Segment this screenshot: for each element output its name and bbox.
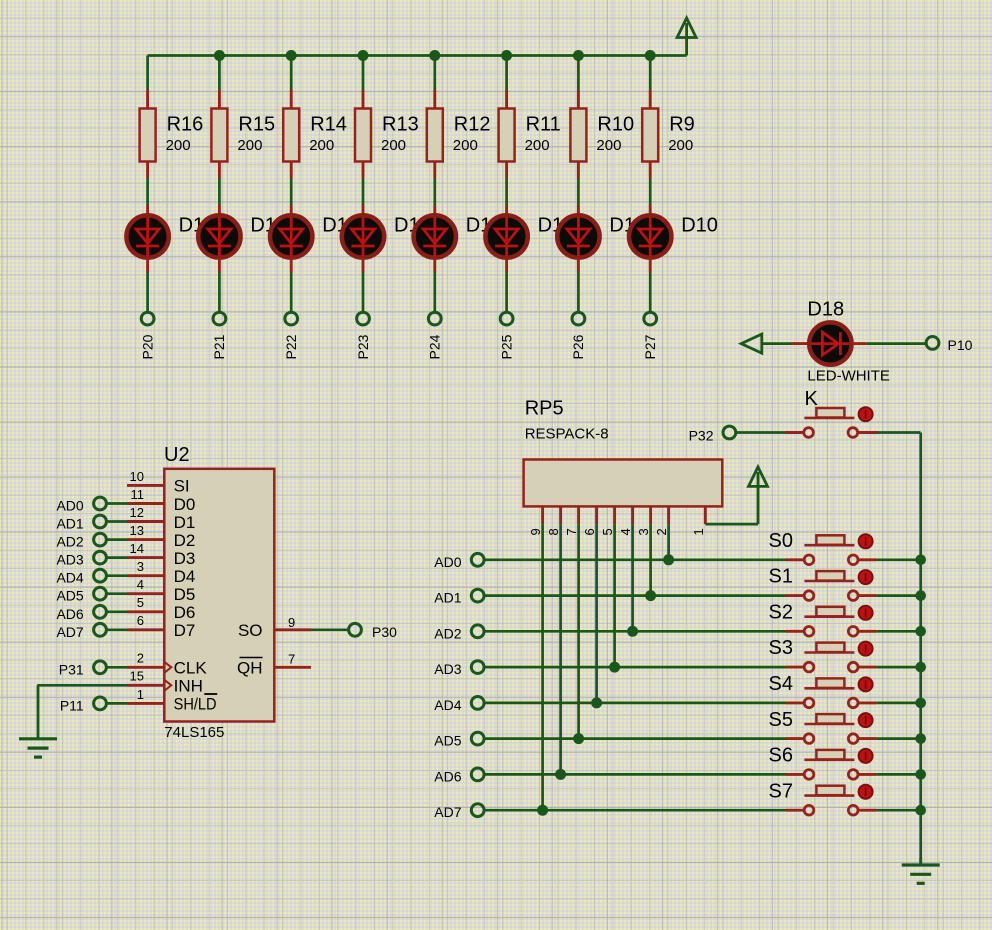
svg-text:R10: R10 (597, 114, 634, 136)
svg-text:K: K (805, 388, 819, 410)
svg-text:6: 6 (582, 528, 597, 535)
svg-text:R13: R13 (382, 114, 419, 136)
svg-text:200: 200 (309, 137, 334, 154)
svg-text:P30: P30 (372, 624, 397, 640)
svg-text:5: 5 (137, 595, 144, 610)
svg-text:4: 4 (137, 577, 144, 592)
svg-text:200: 200 (381, 137, 406, 154)
svg-text:SI: SI (174, 477, 190, 496)
svg-text:P32: P32 (689, 428, 714, 444)
svg-text:6: 6 (137, 613, 144, 628)
svg-text:D3: D3 (174, 549, 196, 568)
svg-text:2: 2 (137, 651, 144, 666)
svg-text:P22: P22 (283, 334, 299, 359)
svg-text:AD3: AD3 (56, 552, 83, 568)
svg-text:AD6: AD6 (56, 606, 83, 622)
svg-text:S3: S3 (769, 637, 793, 659)
svg-text:D18: D18 (807, 299, 844, 321)
svg-text:SH/LD: SH/LD (174, 695, 217, 714)
svg-text:S2: S2 (769, 601, 793, 623)
svg-text:P11: P11 (60, 697, 84, 713)
svg-text:AD7: AD7 (56, 624, 83, 640)
svg-text:200: 200 (453, 137, 478, 154)
svg-text:AD1: AD1 (56, 516, 83, 532)
svg-text:P23: P23 (355, 334, 371, 359)
svg-text:1: 1 (691, 528, 706, 535)
svg-text:AD2: AD2 (56, 534, 83, 550)
svg-text:D6: D6 (174, 603, 196, 622)
svg-text:S6: S6 (769, 745, 793, 767)
svg-text:LED-WHITE: LED-WHITE (807, 368, 890, 385)
svg-text:AD5: AD5 (434, 733, 461, 749)
svg-text:9: 9 (288, 615, 295, 630)
svg-text:5: 5 (600, 528, 615, 535)
svg-text:QH: QH (237, 659, 263, 678)
svg-text:RESPACK-8: RESPACK-8 (525, 426, 609, 443)
svg-text:200: 200 (237, 137, 262, 154)
svg-text:74LS165: 74LS165 (164, 724, 224, 741)
svg-text:200: 200 (166, 137, 191, 154)
svg-text:D5: D5 (174, 585, 196, 604)
svg-text:AD0: AD0 (56, 498, 83, 514)
svg-text:AD0: AD0 (434, 554, 461, 570)
svg-text:D7: D7 (174, 621, 196, 640)
svg-text:1: 1 (137, 687, 144, 702)
svg-text:AD5: AD5 (56, 588, 83, 604)
svg-text:R12: R12 (454, 114, 491, 136)
svg-text:2: 2 (654, 528, 669, 535)
svg-text:P20: P20 (139, 334, 155, 359)
svg-text:9: 9 (528, 528, 543, 535)
svg-text:R11: R11 (526, 114, 561, 136)
svg-text:SO: SO (238, 621, 263, 640)
svg-text:AD6: AD6 (434, 768, 461, 784)
svg-text:P24: P24 (427, 334, 443, 359)
svg-text:RP5: RP5 (525, 398, 564, 420)
svg-text:S0: S0 (769, 530, 793, 552)
svg-text:P31: P31 (59, 661, 84, 677)
svg-text:12: 12 (130, 505, 144, 520)
svg-text:P26: P26 (570, 334, 586, 359)
svg-text:14: 14 (130, 541, 144, 556)
svg-text:R14: R14 (310, 114, 347, 136)
svg-text:U2: U2 (164, 444, 190, 466)
svg-text:S5: S5 (769, 709, 793, 731)
svg-text:CLK: CLK (174, 659, 208, 678)
svg-text:AD4: AD4 (434, 697, 461, 713)
svg-text:P10: P10 (948, 337, 973, 353)
svg-text:D0: D0 (174, 495, 196, 514)
svg-text:P25: P25 (498, 334, 514, 359)
svg-text:R9: R9 (669, 114, 695, 136)
svg-text:S7: S7 (769, 780, 793, 802)
svg-text:S4: S4 (769, 673, 793, 695)
svg-text:AD4: AD4 (56, 570, 83, 586)
svg-text:10: 10 (130, 469, 144, 484)
svg-text:13: 13 (130, 523, 144, 538)
svg-text:D1: D1 (174, 513, 196, 532)
svg-text:3: 3 (137, 559, 144, 574)
svg-text:7: 7 (564, 528, 579, 535)
svg-text:AD3: AD3 (434, 661, 461, 677)
svg-text:INH: INH (174, 677, 203, 696)
svg-text:11: 11 (131, 487, 145, 502)
svg-text:R16: R16 (167, 114, 204, 136)
svg-text:AD2: AD2 (434, 625, 461, 641)
svg-text:AD1: AD1 (434, 590, 461, 606)
svg-text:200: 200 (668, 137, 693, 154)
svg-text:D2: D2 (174, 531, 196, 550)
svg-text:D10: D10 (681, 215, 718, 237)
svg-text:D4: D4 (174, 567, 196, 586)
svg-text:AD7: AD7 (434, 804, 461, 820)
svg-text:S1: S1 (769, 566, 793, 588)
svg-text:P21: P21 (211, 334, 227, 359)
svg-text:3: 3 (636, 528, 651, 535)
svg-text:15: 15 (130, 669, 144, 684)
svg-text:4: 4 (618, 528, 633, 535)
svg-text:R15: R15 (238, 114, 275, 136)
svg-text:200: 200 (596, 137, 621, 154)
svg-text:P27: P27 (642, 334, 658, 359)
svg-text:200: 200 (525, 137, 550, 154)
svg-text:8: 8 (546, 528, 561, 535)
svg-text:7: 7 (288, 652, 295, 667)
